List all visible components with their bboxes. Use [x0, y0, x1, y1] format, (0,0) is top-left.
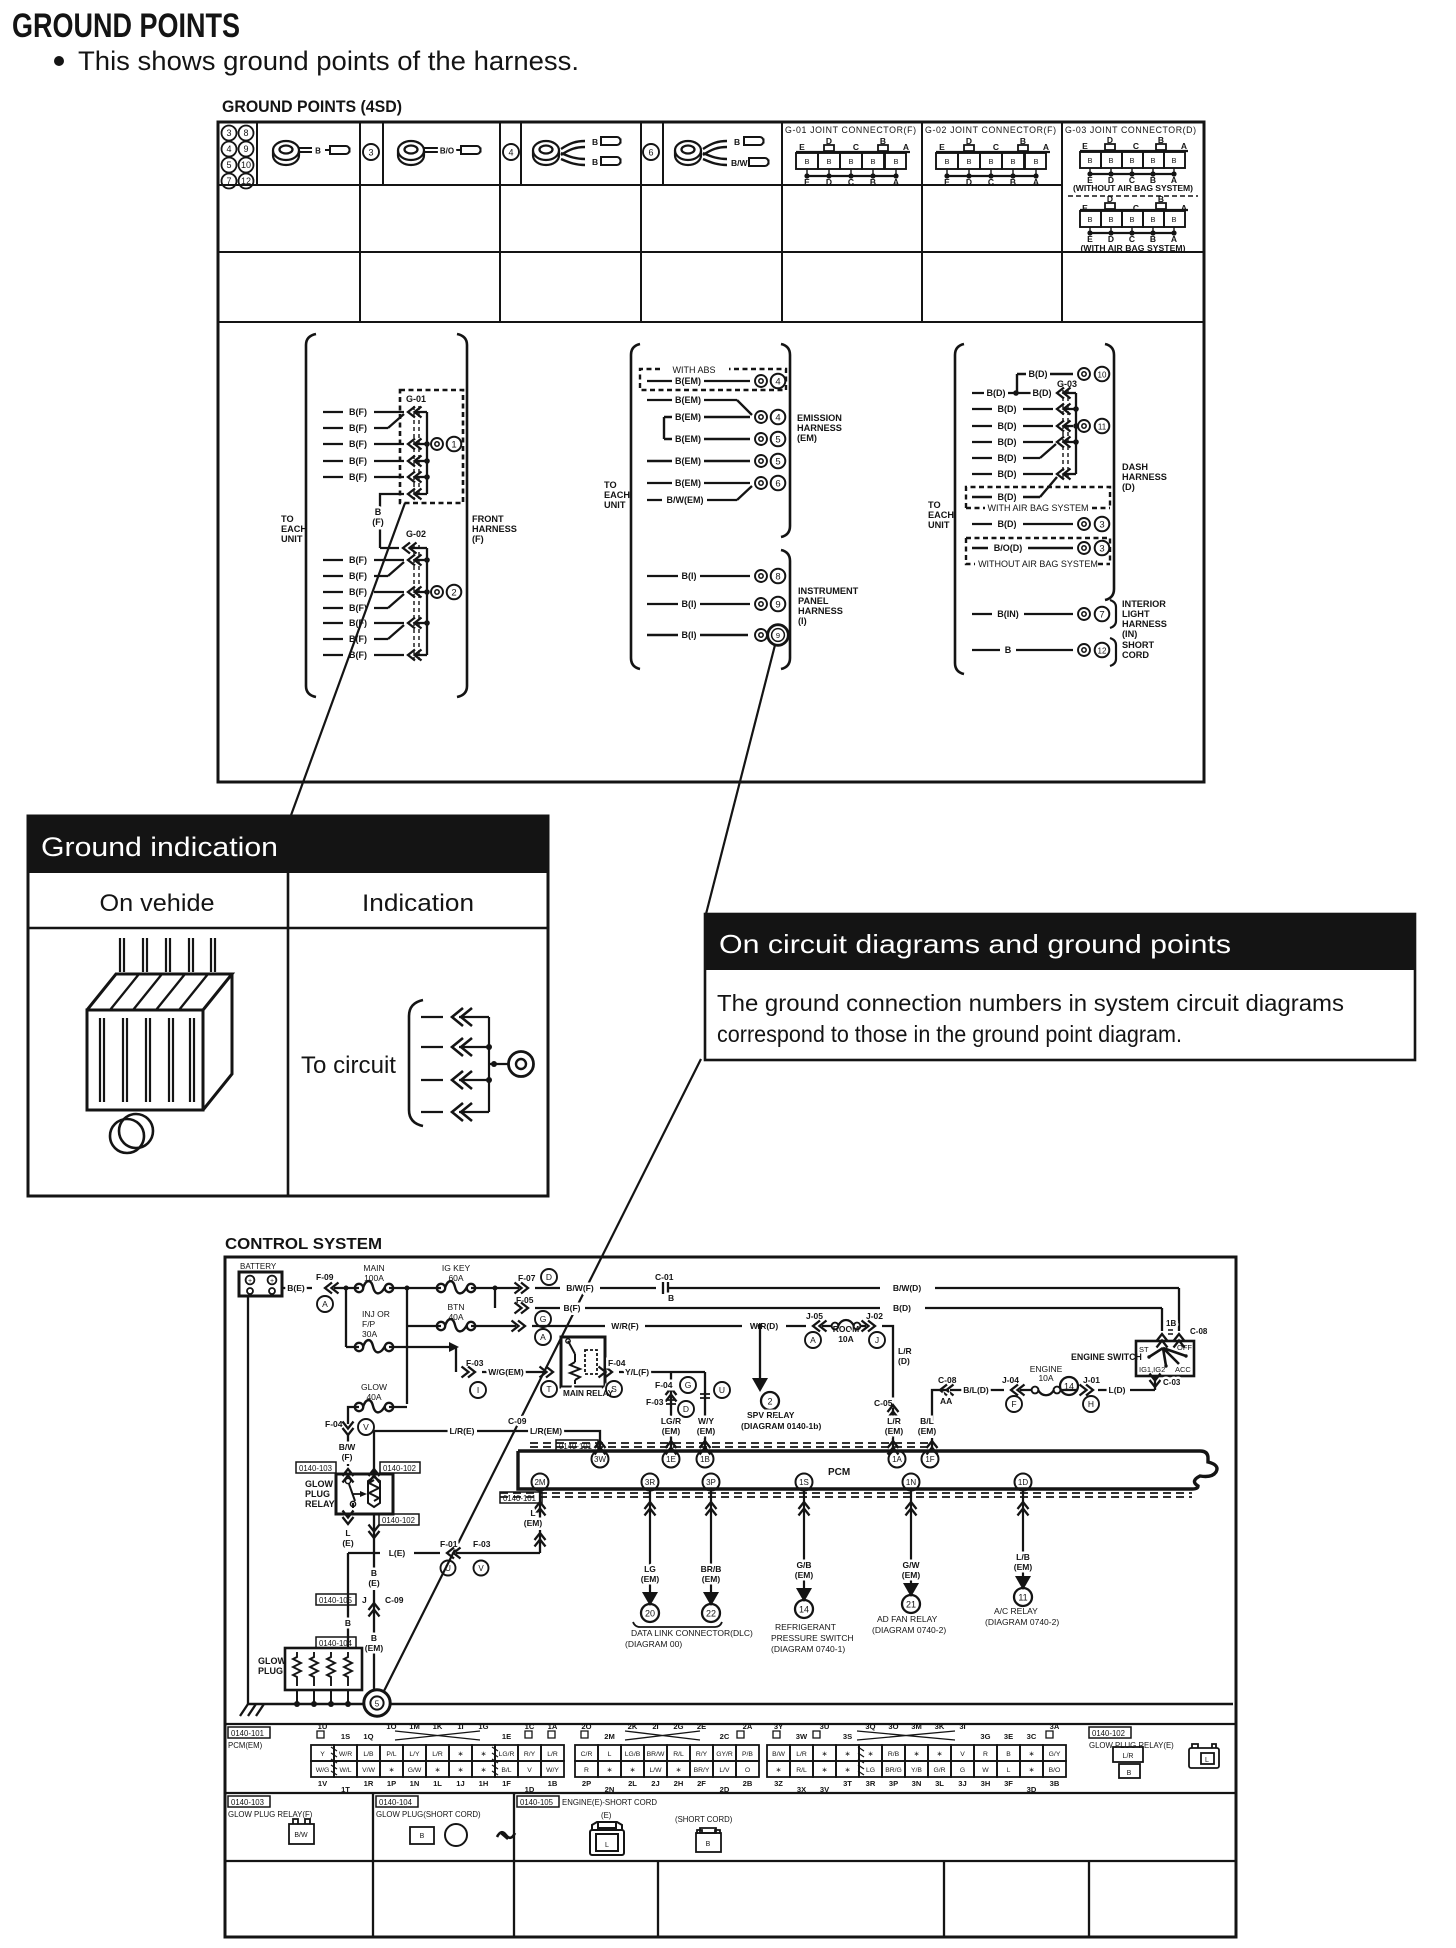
svg-text:30A: 30A	[362, 1329, 377, 1339]
svg-text:L/R: L/R	[547, 1751, 558, 1758]
svg-text:2J: 2J	[651, 1779, 659, 1788]
wire L(D) from switch to J-01	[1098, 1385, 1155, 1395]
svg-text:1G: 1G	[478, 1722, 488, 1731]
section divider	[372, 1793, 374, 1861]
svg-text:B: B	[893, 157, 898, 166]
svg-text:U: U	[445, 1564, 451, 1573]
svg-text:3L: 3L	[935, 1779, 944, 1788]
svg-text:PLUG: PLUG	[258, 1666, 283, 1676]
svg-text:3G: 3G	[980, 1732, 990, 1741]
svg-text:∗: ∗	[822, 1751, 828, 1758]
svg-text:4: 4	[775, 376, 780, 387]
connector marks on BTN wire	[512, 1321, 526, 1332]
label EMISSION HARNESS (EM)	[797, 413, 842, 443]
svg-text:J-02: J-02	[866, 1311, 883, 1321]
svg-text:1B: 1B	[700, 1455, 710, 1464]
svg-text:1K: 1K	[433, 1722, 443, 1731]
svg-text:3N: 3N	[912, 1779, 922, 1788]
svg-text:PCM: PCM	[828, 1467, 850, 1478]
svg-text:L/B: L/B	[363, 1751, 374, 1758]
svg-text:L: L	[605, 1842, 609, 1849]
svg-text:GLOW: GLOW	[305, 1479, 333, 1489]
wire B(F) 12	[323, 650, 427, 661]
ground eyelet symbol 2 (B/O)	[398, 141, 481, 165]
wire B(I) with ground point 9	[647, 599, 750, 609]
glow plug box	[258, 1648, 362, 1707]
circled 4	[503, 144, 519, 160]
svg-text:GLOW PLUG(SHORT CORD): GLOW PLUG(SHORT CORD)	[376, 1810, 481, 1819]
bullet	[54, 56, 64, 66]
svg-text:1Q: 1Q	[363, 1732, 373, 1741]
svg-text:1E: 1E	[502, 1732, 511, 1741]
joint connector G-03 (with air bag)	[1080, 194, 1188, 253]
svg-text:HARNESS: HARNESS	[472, 524, 517, 534]
svg-text:0140-103: 0140-103	[231, 1798, 264, 1807]
wire L(E) horizontal	[348, 1552, 540, 1554]
svg-text:1N: 1N	[410, 1779, 420, 1788]
svg-text:FRONT: FRONT	[472, 514, 504, 524]
wire B(EM) slant	[647, 395, 752, 415]
svg-text:(DIAGRAM 0740-2): (DIAGRAM 0740-2)	[872, 1625, 946, 1635]
svg-text:2I: 2I	[652, 1722, 658, 1731]
svg-text:B(I): B(I)	[682, 630, 697, 640]
svg-text:B: B	[371, 1633, 377, 1643]
svg-text:B: B	[592, 157, 598, 167]
G-01 ground bus	[426, 412, 428, 494]
svg-text:A: A	[893, 177, 899, 187]
table grid verticals full	[360, 122, 1062, 322]
svg-text:L: L	[1007, 1767, 1011, 1774]
svg-text:9: 9	[243, 144, 248, 154]
junction IG out	[493, 1286, 498, 1291]
svg-text:B(F): B(F)	[349, 634, 367, 644]
svg-text:B(D): B(D)	[1033, 388, 1052, 398]
svg-text:E: E	[804, 177, 810, 187]
svg-text:B: B	[1006, 1751, 1011, 1758]
svg-text:2F: 2F	[697, 1779, 706, 1788]
main relay	[561, 1337, 614, 1398]
svg-text:V/W: V/W	[362, 1767, 375, 1774]
section 0140-103 glow plug relay(F)	[228, 1796, 270, 1807]
svg-text:3I: 3I	[959, 1722, 965, 1731]
table grid verticals row1	[257, 122, 663, 185]
svg-text:SPV RELAY: SPV RELAY	[747, 1410, 795, 1420]
svg-text:4: 4	[775, 412, 780, 423]
svg-text:3T: 3T	[843, 1779, 852, 1788]
svg-text:3C: 3C	[1027, 1732, 1037, 1741]
svg-text:(F): (F)	[342, 1452, 353, 1462]
svg-text:L(E): L(E)	[389, 1548, 406, 1558]
svg-text:INJ OR: INJ OR	[362, 1309, 390, 1319]
svg-text:L/B: L/B	[1016, 1552, 1030, 1562]
svg-text:WITHOUT AIR BAG SYSTEM: WITHOUT AIR BAG SYSTEM	[978, 559, 1098, 569]
svg-text:+: +	[248, 1278, 252, 1285]
wire B(F) 2	[323, 414, 404, 433]
ground rail	[248, 1703, 1233, 1705]
svg-text:ENGINE(E)-SHORT CORD: ENGINE(E)-SHORT CORD	[562, 1798, 657, 1807]
svg-text:B/L: B/L	[501, 1767, 511, 1774]
svg-text:The ground connection numbers: The ground connection numbers in system …	[717, 990, 1344, 1016]
svg-text:B: B	[1171, 156, 1176, 165]
circled 2	[447, 585, 462, 600]
ground eyelet symbol 4 (B,B/W fork)	[675, 137, 769, 168]
svg-text:3S: 3S	[843, 1732, 852, 1741]
svg-text:2D: 2D	[720, 1785, 730, 1794]
hatch marks grid 1	[331, 1747, 337, 1775]
ground indication title band	[28, 816, 548, 873]
svg-text:∗: ∗	[776, 1767, 782, 1774]
battery ground vertical to rail	[247, 1296, 249, 1704]
svg-text:S: S	[611, 1384, 617, 1394]
wire B(F) 7	[323, 562, 404, 581]
fuse GLOW 40A	[355, 1382, 393, 1412]
svg-text:3Z: 3Z	[774, 1779, 783, 1788]
svg-text:1: 1	[451, 439, 456, 450]
connector C-09 on B wire	[316, 1594, 356, 1605]
circled 1	[447, 437, 462, 452]
WITHOUT AIR BAG dashed box	[966, 538, 1110, 564]
svg-text:3P: 3P	[706, 1478, 716, 1487]
joint connector G-01	[785, 125, 916, 187]
svg-text:2: 2	[767, 1397, 772, 1407]
bracket left (F)	[306, 334, 316, 697]
svg-text:E: E	[939, 142, 945, 152]
svg-text:CORD: CORD	[1122, 650, 1149, 660]
svg-text:REFRIGERANT: REFRIGERANT	[775, 1622, 836, 1632]
svg-text:(E): (E)	[368, 1578, 380, 1588]
svg-text:HARNESS: HARNESS	[1122, 619, 1167, 629]
svg-text:∗: ∗	[458, 1751, 464, 1758]
front face wire slots	[100, 1018, 194, 1102]
svg-text:D: D	[966, 177, 972, 187]
svg-text:∗: ∗	[868, 1751, 874, 1758]
svg-text:W/R: W/R	[339, 1751, 352, 1758]
svg-text:B: B	[1010, 177, 1016, 187]
svg-text:G-01: G-01	[406, 394, 426, 404]
wire B/W(EM) slant	[647, 486, 752, 505]
small connector (E) right	[1189, 1744, 1219, 1768]
svg-text:B: B	[1010, 157, 1015, 166]
svg-text:1A: 1A	[892, 1455, 902, 1464]
pin bracket lines grid 3	[857, 1731, 955, 1740]
svg-text:1B: 1B	[548, 1779, 558, 1788]
svg-text:B: B	[804, 157, 809, 166]
G-03 ground bus	[1075, 393, 1077, 474]
svg-text:1L: 1L	[433, 1779, 442, 1788]
svg-text:1O: 1O	[386, 1722, 396, 1731]
svg-text:3X: 3X	[797, 1785, 806, 1794]
svg-text:UNIT: UNIT	[604, 500, 626, 510]
relay right connector F-04	[599, 1367, 613, 1378]
svg-text:A: A	[903, 142, 909, 152]
wire B(EM) abs with ground point 4	[647, 376, 750, 386]
svg-text:F-04: F-04	[608, 1358, 626, 1368]
svg-text:DASH: DASH	[1122, 462, 1148, 472]
wire B(D) g03-6	[972, 469, 1076, 480]
wire B(E) battery to F-09	[282, 1283, 312, 1293]
svg-text:3V: 3V	[820, 1785, 830, 1794]
svg-text:∗: ∗	[481, 1751, 487, 1758]
svg-text:8: 8	[775, 571, 780, 582]
svg-text:W: W	[982, 1767, 989, 1774]
svg-text:B/W(EM): B/W(EM)	[667, 495, 704, 505]
bracket right (IN)	[1110, 600, 1116, 628]
svg-text:B: B	[826, 157, 831, 166]
svg-text:(D): (D)	[898, 1356, 910, 1366]
svg-text:0140-101: 0140-101	[231, 1729, 264, 1738]
svg-text:B(EM): B(EM)	[675, 376, 701, 386]
wire to circuit 4	[421, 1111, 489, 1113]
PCM connector pin grid 2	[575, 1745, 759, 1777]
svg-text:(EM): (EM)	[702, 1574, 721, 1584]
svg-text:L/R(E): L/R(E)	[449, 1426, 474, 1436]
wire B(F) 11	[323, 625, 404, 644]
svg-text:G/B: G/B	[796, 1560, 811, 1570]
svg-text:W/G: W/G	[316, 1767, 330, 1774]
wire B(F) 8 with ground point 2	[323, 587, 430, 598]
svg-text:F-03: F-03	[646, 1397, 664, 1407]
svg-text:GY/R: GY/R	[716, 1751, 733, 1758]
fuse ROOM 10A	[822, 1320, 866, 1344]
svg-text:(WITH AIR BAG SYSTEM): (WITH AIR BAG SYSTEM)	[1081, 243, 1186, 253]
svg-text:0140-104: 0140-104	[379, 1798, 413, 1807]
svg-text:Y: Y	[320, 1751, 325, 1758]
svg-text:3: 3	[226, 128, 231, 138]
PCM pins row2	[532, 1474, 1032, 1491]
svg-text:B(F): B(F)	[349, 571, 367, 581]
table grid horizontals	[218, 185, 1204, 322]
svg-text:(EM): (EM)	[902, 1570, 921, 1580]
svg-text:C: C	[853, 142, 859, 152]
svg-text:3E: 3E	[1004, 1732, 1013, 1741]
svg-text:J-04: J-04	[1002, 1375, 1019, 1385]
wire B(F) 3 with ground point 1	[323, 439, 430, 450]
svg-text:B(D): B(D)	[998, 492, 1017, 502]
wire B(F) link to G-02	[372, 489, 427, 554]
svg-text:L/R: L/R	[898, 1346, 912, 1356]
callout line from G-01 to ground indication box	[290, 503, 405, 818]
svg-text:L/R: L/R	[796, 1751, 807, 1758]
svg-text:3R: 3R	[866, 1779, 876, 1788]
ground point symbol 2	[431, 586, 443, 598]
svg-text:PLUG: PLUG	[305, 1489, 330, 1499]
svg-text:W/G(EM): W/G(EM)	[488, 1367, 524, 1377]
svg-text:B: B	[1127, 1770, 1132, 1777]
svg-text:0140-102: 0140-102	[383, 1464, 416, 1473]
svg-text:B/W: B/W	[772, 1751, 785, 1758]
svg-text:3W: 3W	[594, 1455, 606, 1464]
svg-text:5: 5	[375, 1700, 380, 1709]
svg-text:W/Y: W/Y	[546, 1767, 559, 1774]
svg-text:GROUND POINTS (4SD): GROUND POINTS (4SD)	[222, 97, 402, 116]
svg-text:∗: ∗	[435, 1767, 441, 1774]
label SHORT CORD	[1122, 640, 1155, 660]
svg-text:B: B	[870, 177, 876, 187]
svg-text:IG1,IG2: IG1,IG2	[1139, 1365, 1165, 1374]
section divider	[513, 1793, 515, 1861]
svg-text:LIGHT: LIGHT	[1122, 609, 1150, 619]
svg-text:0140-105: 0140-105	[520, 1798, 554, 1807]
svg-text:(EM): (EM)	[662, 1426, 681, 1436]
svg-text:F-09: F-09	[316, 1272, 334, 1282]
svg-text:1U: 1U	[318, 1722, 328, 1731]
svg-text:A: A	[1043, 142, 1049, 152]
svg-text:R/Y: R/Y	[524, 1751, 536, 1758]
svg-text:B: B	[315, 147, 321, 156]
SPV relay	[759, 1326, 761, 1378]
svg-text:INTERIOR: INTERIOR	[1122, 599, 1166, 609]
svg-text:correspond to those in the gro: correspond to those in the ground point …	[717, 1021, 1182, 1047]
bus	[488, 1017, 490, 1112]
G-01 connector dashed contacts	[414, 406, 419, 499]
svg-text:B: B	[988, 157, 993, 166]
svg-text:On vehide: On vehide	[100, 890, 215, 917]
svg-text:B(F): B(F)	[349, 407, 367, 417]
svg-text:∗: ∗	[676, 1767, 682, 1774]
svg-text:GLOW: GLOW	[258, 1656, 286, 1666]
svg-text:B: B	[1150, 215, 1155, 224]
svg-text:B: B	[1033, 157, 1038, 166]
glow plug relay(E) connector	[1113, 1747, 1143, 1778]
label INTERIOR LIGHT HARNESS (IN)	[1122, 599, 1167, 639]
svg-text:∗: ∗	[458, 1767, 464, 1774]
svg-text:B(D): B(D)	[893, 1303, 911, 1313]
svg-text:B: B	[1129, 215, 1134, 224]
svg-text:14: 14	[799, 1605, 809, 1615]
svg-text:B: B	[420, 1833, 425, 1840]
svg-text:O: O	[745, 1767, 750, 1774]
PCM box	[518, 1451, 1217, 1489]
G-02 connector dashed contacts	[414, 545, 419, 660]
svg-text:C-09: C-09	[385, 1595, 404, 1605]
bracket left (EM)	[631, 344, 640, 669]
svg-text:J: J	[875, 1335, 879, 1345]
wire to circuit 1	[421, 1016, 489, 1018]
svg-text:B: B	[1171, 215, 1176, 224]
svg-text:1S: 1S	[341, 1732, 350, 1741]
W/Y(EM) drop to PCM 1B	[704, 1372, 706, 1448]
svg-text:E: E	[1082, 141, 1088, 151]
svg-text:Ground indication: Ground indication	[41, 832, 278, 862]
svg-text:3: 3	[1099, 519, 1104, 530]
PCM dashed bus (top)	[530, 1443, 932, 1447]
svg-text:HARNESS: HARNESS	[797, 423, 842, 433]
wire B(F) 1	[323, 407, 427, 418]
svg-text:G/W: G/W	[408, 1767, 422, 1774]
svg-text:1M: 1M	[409, 1722, 420, 1731]
svg-text:2A: 2A	[743, 1722, 753, 1731]
svg-text:J: J	[362, 1595, 367, 1605]
svg-text:B: B	[1087, 215, 1092, 224]
svg-text:F: F	[1011, 1399, 1016, 1409]
svg-text:(IN): (IN)	[1122, 629, 1137, 639]
svg-text:W/Y: W/Y	[698, 1416, 714, 1426]
svg-text:L/R(EM): L/R(EM)	[530, 1426, 562, 1436]
svg-text:(EM): (EM)	[365, 1643, 384, 1653]
bracket right (F)	[457, 334, 467, 697]
svg-text:F-04: F-04	[655, 1380, 673, 1390]
svg-text:INSTRUMENT: INSTRUMENT	[798, 586, 859, 596]
svg-text:G/R: G/R	[933, 1767, 945, 1774]
svg-text:W/L: W/L	[339, 1767, 351, 1774]
svg-text:5: 5	[775, 456, 780, 467]
svg-text:B/W(D): B/W(D)	[893, 1283, 921, 1293]
svg-text:F-05: F-05	[516, 1295, 534, 1305]
svg-text:B: B	[345, 1618, 351, 1628]
svg-text:3J: 3J	[958, 1779, 966, 1788]
svg-text:E: E	[944, 177, 950, 187]
block top face	[87, 974, 232, 1010]
svg-text:BR/G: BR/G	[885, 1767, 902, 1774]
svg-text:TO: TO	[281, 514, 294, 524]
svg-text:C: C	[993, 142, 999, 152]
wire B(D) g03-5 slant	[972, 444, 1056, 463]
svg-text:B(F): B(F)	[349, 587, 367, 597]
svg-text:V: V	[478, 1564, 484, 1573]
svg-text:B/L(D): B/L(D)	[963, 1385, 989, 1395]
svg-text:R/Y: R/Y	[696, 1751, 708, 1758]
svg-text:L/W: L/W	[649, 1767, 662, 1774]
svg-text:0140-105: 0140-105	[319, 1596, 353, 1605]
svg-text:3M: 3M	[911, 1722, 922, 1731]
svg-text:L(D): L(D)	[1109, 1385, 1126, 1395]
wire L/R(E) horizontal	[374, 1426, 600, 1448]
INJ OR F/P fuse	[355, 1309, 393, 1352]
bracket right (I)	[781, 550, 790, 669]
svg-text:B(D): B(D)	[1029, 369, 1048, 379]
svg-text:F-01: F-01	[440, 1539, 458, 1549]
svg-text:T: T	[546, 1384, 551, 1394]
svg-text:B/O(D): B/O(D)	[994, 543, 1023, 553]
svg-text:B(F): B(F)	[349, 618, 367, 628]
svg-text:2K: 2K	[628, 1722, 638, 1731]
svg-text:2M: 2M	[604, 1732, 615, 1741]
svg-text:10: 10	[241, 160, 251, 170]
svg-text:B(F): B(F)	[349, 456, 367, 466]
svg-text:C-09: C-09	[508, 1416, 527, 1426]
svg-text:∗: ∗	[845, 1751, 851, 1758]
svg-text:B(D): B(D)	[987, 388, 1006, 398]
svg-text:3Y: 3Y	[774, 1722, 783, 1731]
svg-text:DATA LINK CONNECTOR(DLC): DATA LINK CONNECTOR(DLC)	[631, 1628, 753, 1638]
svg-text:9: 9	[775, 599, 780, 610]
svg-text:H: H	[1088, 1399, 1094, 1409]
svg-text:B(D): B(D)	[998, 453, 1017, 463]
svg-text:A: A	[540, 1332, 546, 1342]
svg-text:0140-104: 0140-104	[319, 1639, 353, 1648]
svg-text:J-05: J-05	[806, 1311, 823, 1321]
svg-text:D: D	[826, 177, 832, 187]
svg-text:2M: 2M	[534, 1478, 545, 1487]
svg-text:G: G	[960, 1767, 965, 1774]
svg-text:3R: 3R	[645, 1478, 655, 1487]
fuse ENGINE 10A	[1020, 1364, 1077, 1395]
wire B(IN) with ground point 7	[972, 609, 1073, 619]
svg-text:B/O: B/O	[440, 147, 454, 156]
svg-text:R/L: R/L	[796, 1767, 807, 1774]
wire B(EM) with ground point 5	[664, 434, 750, 444]
ground point symbol 1	[431, 438, 443, 450]
svg-text:(EM): (EM)	[641, 1574, 660, 1584]
svg-text:PCM(EM): PCM(EM)	[228, 1741, 263, 1750]
svg-text:B(IN): B(IN)	[997, 609, 1019, 619]
wire B(F) 9	[323, 594, 404, 613]
right vertical B(E)/B(EM) to ground	[373, 1514, 375, 1690]
section 0140-105 engine(E)-short cord	[517, 1796, 559, 1807]
svg-text:BATTERY: BATTERY	[240, 1262, 277, 1271]
svg-text:GLOW: GLOW	[361, 1382, 387, 1392]
svg-text:B/W(F): B/W(F)	[566, 1283, 594, 1293]
